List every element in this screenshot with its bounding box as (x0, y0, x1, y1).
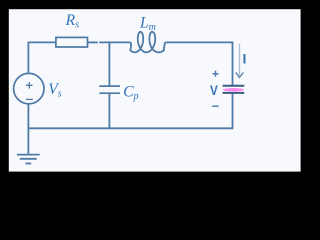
svg-text:V: V (210, 82, 218, 98)
wire: gap to inductor with Cp junction (99, 41, 129, 43)
ground bar 2 (20, 158, 37, 160)
inductor Lm coil (130, 32, 167, 53)
piezo plate bottom (223, 92, 245, 94)
wire: piezo bottom lead (232, 94, 234, 129)
piezo pink ceramic disc (223, 88, 245, 92)
minus sign at piezo (212, 105, 218, 107)
capacitor Cp bottom lead (108, 93, 110, 128)
wire: source bottom lead (27, 104, 29, 129)
ground bar 3 (25, 163, 31, 165)
wire: inductor to top-right corner, down to piezo top (166, 42, 232, 85)
wire: top-left corner (28, 42, 56, 73)
current arrow I head (236, 72, 244, 77)
wire: bottom rail (28, 127, 233, 129)
voltage source Vs circle (14, 73, 44, 103)
minus sign in source (26, 98, 33, 100)
svg-text:I: I (243, 50, 247, 66)
plus sign at piezo (213, 71, 219, 77)
wire: resistor to gap (88, 41, 98, 43)
current arrow I shaft (239, 44, 241, 76)
resistor Rs body (56, 37, 88, 47)
wire: ground lead (27, 128, 29, 154)
capacitor Cp plates (99, 86, 120, 93)
capacitor Cp top lead (108, 42, 110, 86)
plus sign in source (26, 82, 32, 88)
ground bar 1 (17, 154, 40, 156)
piezo plate top (223, 85, 245, 87)
